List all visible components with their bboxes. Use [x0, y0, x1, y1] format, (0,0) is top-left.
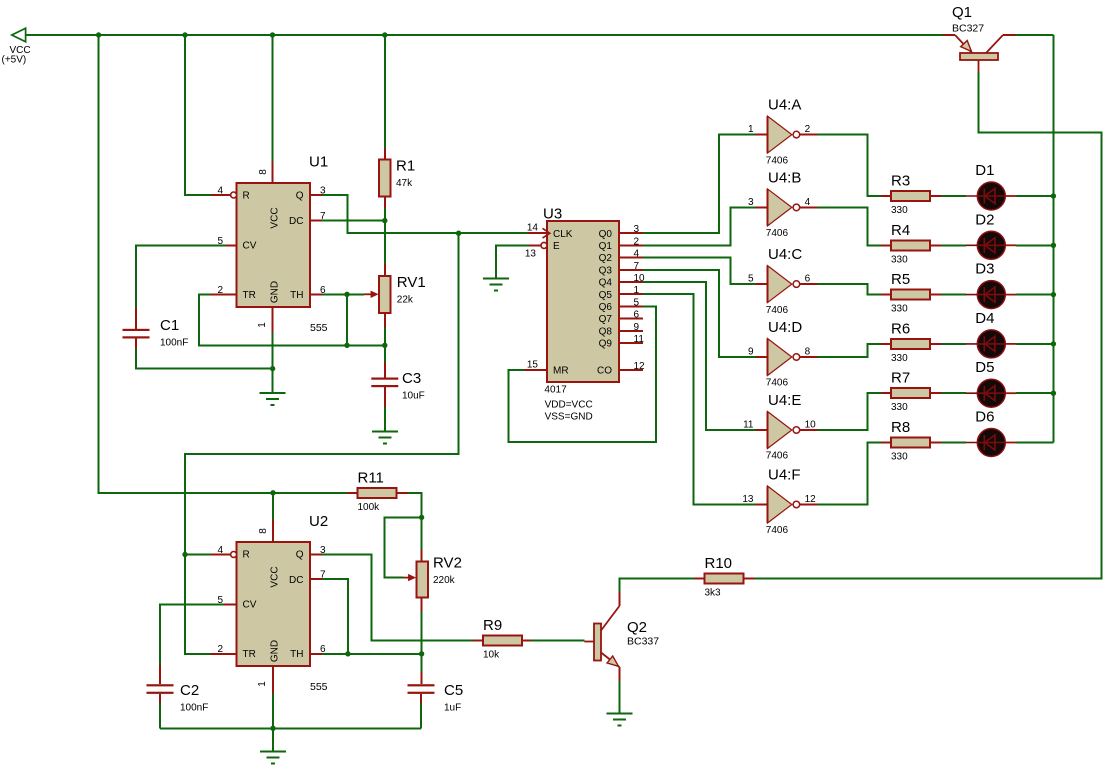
- wire D4 to anode rail: [1016, 343, 1053, 345]
- wire U4:A output to R3: [818, 135, 882, 196]
- pin stub U3 Q6: [619, 305, 643, 307]
- pin stub U3 CLK pin14: [527, 232, 547, 234]
- wiper arrow RV1: [364, 291, 379, 298]
- lead R3 right: [930, 195, 942, 197]
- svg-text:VSS=GND: VSS=GND: [545, 412, 593, 423]
- svg-text:7406: 7406: [766, 155, 789, 166]
- svg-text:R4: R4: [891, 222, 910, 239]
- pin stub U3 E pin13: [529, 244, 541, 246]
- LED D4: [966, 310, 1016, 358]
- junction anode rail y393: [1051, 391, 1056, 396]
- svg-text:3k3: 3k3: [705, 588, 722, 599]
- capacitor C1 100nF: [123, 317, 189, 349]
- lead Q2 emitter: [618, 667, 620, 681]
- capacitor C5 1uF: [408, 682, 464, 714]
- svg-text:CLK: CLK: [553, 229, 573, 240]
- svg-text:555: 555: [310, 322, 328, 334]
- resistor R3 330: [891, 173, 930, 217]
- svg-text:1uF: 1uF: [444, 703, 461, 714]
- inverter U4:B 7406: [756, 169, 818, 239]
- pin stub U2 R pin4: [211, 554, 231, 556]
- svg-text:11: 11: [743, 420, 754, 431]
- svg-text:Q: Q: [296, 550, 304, 561]
- svg-text:GND: GND: [270, 281, 281, 303]
- wire U4:E output to R7: [818, 393, 882, 430]
- pin number 3 U3 Q0: [634, 224, 640, 235]
- timer U2 555: [237, 513, 329, 693]
- pin stub U1 VCC pin8: [272, 162, 274, 184]
- wire U2 CV to C2: [160, 604, 224, 665]
- svg-text:100nF: 100nF: [160, 338, 188, 349]
- svg-text:DC: DC: [289, 575, 303, 586]
- wire U2 GND to bottom rail: [272, 694, 274, 729]
- pin number 2 U3 Q1: [634, 236, 640, 247]
- lead C5 top: [421, 672, 423, 684]
- pin number 14 U3: [527, 223, 539, 234]
- svg-text:8: 8: [258, 169, 269, 175]
- wire C5 to bottom rail: [420, 703, 422, 728]
- wire VCC top rail: [26, 34, 943, 36]
- svg-text:4: 4: [805, 197, 811, 208]
- pin stub U3 Q9: [619, 342, 643, 344]
- bubble U1 R pin4: [231, 192, 237, 198]
- svg-text:330: 330: [891, 452, 908, 463]
- lead Q2 collector: [618, 592, 620, 606]
- svg-text:22k: 22k: [397, 295, 414, 306]
- svg-text:9: 9: [748, 347, 754, 358]
- resistor R7 330: [891, 370, 930, 414]
- lead R1 bottom: [384, 196, 386, 208]
- inverter U4:C 7406: [756, 246, 818, 316]
- svg-text:Q5: Q5: [599, 290, 613, 301]
- pin stub U3 Q0: [619, 232, 643, 234]
- svg-text:(+5V): (+5V): [2, 55, 27, 66]
- pin number 13 U3: [525, 248, 537, 259]
- wire Q3 to U4:D: [643, 270, 755, 357]
- svg-text:U4:C: U4:C: [768, 246, 802, 263]
- svg-text:10uF: 10uF: [402, 391, 425, 402]
- pin stub U3 MR pin15: [524, 369, 547, 371]
- wire U1 Q to U3 CLK: [322, 195, 527, 233]
- wire U1 TH to RV1 wiper: [322, 293, 364, 295]
- svg-text:Q0: Q0: [599, 229, 613, 240]
- wire VCC drop to U1 reset: [185, 35, 211, 195]
- svg-text:C5: C5: [444, 682, 463, 699]
- wire Q0 to U4:A: [643, 135, 755, 234]
- pin stub U2 VCC pin8: [272, 520, 274, 543]
- svg-text:15: 15: [527, 359, 539, 370]
- svg-text:1: 1: [748, 124, 754, 135]
- pin stub U1 Q pin3: [310, 194, 322, 196]
- wire Q1 to U4:B: [643, 207, 755, 245]
- pin number 1 U2: [257, 681, 268, 687]
- svg-text:8: 8: [258, 528, 269, 534]
- pin stub U1 CV pin5: [226, 244, 237, 246]
- pin stub U2 Q pin3: [310, 554, 322, 556]
- lead R9 right: [522, 640, 531, 642]
- pin number 9 U3 Q8: [634, 322, 640, 333]
- junction Q net split to U2: [456, 231, 461, 236]
- pin stub U3 Q7: [619, 318, 643, 320]
- bubble U2 R pin4: [231, 552, 237, 558]
- ground U1: [260, 393, 286, 405]
- svg-text:220k: 220k: [433, 575, 456, 586]
- svg-text:330: 330: [891, 402, 908, 413]
- transistor Q1 BC327: [952, 4, 1003, 72]
- svg-text:R3: R3: [891, 173, 910, 190]
- junction VCC rail / U1 VCC drop: [270, 32, 275, 37]
- capacitor C3 10uF: [371, 370, 424, 402]
- power terminal VCC: [2, 28, 31, 65]
- svg-text:C1: C1: [160, 317, 179, 334]
- svg-text:RV2: RV2: [433, 555, 462, 572]
- svg-text:1: 1: [257, 681, 268, 687]
- svg-text:47k: 47k: [396, 178, 413, 189]
- svg-text:8: 8: [805, 347, 811, 358]
- wire R7 to D5: [942, 392, 966, 394]
- svg-text:U3: U3: [543, 206, 562, 223]
- svg-text:BC337: BC337: [627, 636, 659, 648]
- potentiometer RV2 220k: [417, 555, 462, 598]
- wire U1 DC to R1 bottom: [322, 220, 385, 222]
- pin numbers U4:D: [748, 347, 811, 358]
- svg-text:Q3: Q3: [599, 265, 613, 276]
- resistor R10 3k3: [705, 555, 744, 599]
- svg-text:R: R: [243, 191, 250, 202]
- lead C1 top: [135, 308, 137, 329]
- svg-text:Q6: Q6: [599, 302, 613, 313]
- svg-text:5: 5: [748, 274, 754, 285]
- wire R4 to D2: [942, 244, 966, 246]
- ground C3: [372, 431, 398, 443]
- pin numbers U4:E: [743, 420, 816, 431]
- junction R11 row / U2 VCC: [270, 490, 275, 495]
- svg-text:330: 330: [891, 304, 908, 315]
- ground U2: [260, 752, 286, 764]
- op-amp/timer U1 555: [237, 154, 329, 335]
- pin stub U2 CV pin5: [224, 603, 237, 605]
- wire C2 to bottom rail: [159, 703, 161, 728]
- svg-text:10: 10: [805, 420, 817, 431]
- pin number 10 U3 Q4: [634, 273, 646, 284]
- pin stub U3 Q2: [619, 257, 643, 259]
- wire U2 Q to R9: [322, 555, 472, 641]
- svg-text:R1: R1: [396, 157, 415, 174]
- lead C3 top: [384, 362, 386, 378]
- lead R10 left: [694, 578, 705, 580]
- wire U2 DC down to TH row: [322, 579, 348, 654]
- lead R9 left: [472, 640, 483, 642]
- pin numbers U4:A: [748, 124, 811, 135]
- pin stub U3 CO pin12: [619, 369, 643, 371]
- wire U1 TR to TH net: [199, 294, 385, 345]
- svg-text:R11: R11: [358, 469, 384, 486]
- svg-text:Q1: Q1: [952, 4, 972, 21]
- wiper arrow RV2: [404, 574, 417, 581]
- lead C3 bottom: [384, 387, 386, 407]
- resistor R1 47k: [379, 157, 415, 196]
- transistor Q2 BC337: [584, 606, 659, 667]
- svg-text:4017: 4017: [544, 385, 567, 396]
- pin stub U3 Q4: [619, 281, 643, 283]
- junction TH row / RV2-C5: [419, 651, 424, 656]
- lead RV2 top: [421, 550, 423, 562]
- wire U1 GND down: [272, 332, 274, 393]
- wire U1 CV to C1 top: [136, 245, 226, 307]
- svg-text:14: 14: [527, 223, 539, 234]
- pin stub U2 DC pin7: [310, 578, 322, 580]
- svg-text:BC327: BC327: [952, 23, 984, 35]
- svg-text:10k: 10k: [483, 650, 500, 661]
- wire Q2 emitter to ground: [618, 681, 620, 714]
- wire RV1 bottom to C3: [384, 328, 386, 363]
- svg-text:R6: R6: [891, 320, 910, 337]
- inverter U4:D 7406: [756, 319, 818, 389]
- svg-text:D6: D6: [975, 409, 994, 426]
- pin number 4 U2: [217, 545, 223, 556]
- pin number 1 U1: [257, 322, 268, 328]
- pin number 12 U3 CO: [634, 361, 646, 372]
- svg-text:13: 13: [742, 494, 754, 505]
- pin stub U3 Q3: [619, 269, 643, 271]
- wire Q net down to U2 reset/trigger: [185, 233, 459, 654]
- svg-text:Q9: Q9: [599, 339, 613, 350]
- svg-text:330: 330: [891, 205, 908, 216]
- svg-text:E: E: [553, 241, 560, 252]
- lead C2 bottom: [159, 694, 161, 703]
- svg-text:U2: U2: [309, 513, 328, 530]
- junction anode rail y196: [1051, 193, 1056, 198]
- svg-text:7406: 7406: [766, 451, 789, 462]
- inverter U4:A 7406: [756, 97, 818, 167]
- svg-text:D5: D5: [975, 359, 994, 376]
- svg-text:CV: CV: [243, 241, 257, 252]
- lead R8 right: [930, 442, 942, 444]
- lead R7 left: [881, 392, 891, 394]
- svg-text:VCC: VCC: [270, 207, 281, 228]
- lead R11 left: [348, 492, 358, 494]
- lead R10 right: [744, 578, 755, 580]
- svg-text:RV1: RV1: [397, 274, 426, 291]
- svg-text:7406: 7406: [766, 525, 789, 536]
- lead C1 bottom: [135, 339, 137, 349]
- svg-text:Q: Q: [296, 191, 304, 202]
- wire Q5 to U4:F: [643, 294, 755, 504]
- resistor R5 330: [891, 271, 930, 315]
- lead R3 left: [881, 195, 891, 197]
- inverter U4:E 7406: [756, 392, 818, 462]
- wire D3 to anode rail: [1016, 294, 1053, 296]
- pin numbers U4:B: [748, 197, 811, 208]
- pin number 7 U2: [320, 570, 326, 581]
- lead R8 left: [881, 442, 891, 444]
- wire D5 to anode rail: [1016, 392, 1053, 394]
- pin number 3 U1: [320, 186, 326, 197]
- svg-text:12: 12: [805, 494, 817, 505]
- svg-text:3: 3: [748, 197, 754, 208]
- junction anode rail y245: [1051, 243, 1056, 248]
- pin stub U1 GND pin1: [272, 307, 274, 332]
- pin number 7 U3 Q3: [634, 261, 640, 272]
- junction bottom rail / U2 GND: [270, 726, 275, 731]
- wire U4:C output to R5: [818, 284, 882, 295]
- svg-text:R8: R8: [891, 419, 910, 436]
- wire TH junction down: [346, 294, 348, 345]
- svg-text:TR: TR: [243, 290, 256, 301]
- pin number 4 U3 Q2: [634, 249, 640, 260]
- junction TR line / RV1-C3: [382, 343, 387, 348]
- svg-text:D3: D3: [975, 261, 994, 278]
- LED D1: [966, 162, 1016, 210]
- svg-text:U1: U1: [309, 154, 328, 171]
- pin number 5 U3 Q6: [634, 297, 640, 308]
- junction DC/TH row: [345, 651, 350, 656]
- svg-text:2: 2: [805, 124, 811, 135]
- wire R11 to RV2 top: [408, 493, 422, 550]
- resistor R9 10k: [483, 617, 522, 661]
- lead RV2 bottom: [421, 598, 423, 613]
- pin stub U3 Q8: [619, 330, 643, 332]
- wire U2 reset tap: [185, 554, 211, 556]
- svg-text:6: 6: [805, 274, 811, 285]
- wire Q1 collector to anode rail: [1016, 34, 1054, 36]
- pin stub Q1 emitter: [942, 34, 955, 36]
- junction VCC rail / R1 drop: [382, 32, 387, 37]
- svg-text:Q2: Q2: [599, 253, 613, 264]
- wire R8 to D6: [942, 442, 966, 444]
- resistor R11 100k: [358, 469, 397, 513]
- pin stub U2 GND pin1: [272, 666, 274, 694]
- wire C1 bottom to ground node: [136, 349, 273, 369]
- wire D6 to anode rail: [1016, 442, 1053, 444]
- pin number 6 U1: [320, 285, 326, 296]
- wire U3 MR to Q6 loop: [508, 306, 656, 442]
- wire R9 to Q2 base: [531, 640, 584, 642]
- svg-text:D1: D1: [975, 162, 994, 179]
- wire Q4 to U4:E: [643, 282, 755, 430]
- svg-text:C2: C2: [180, 682, 199, 699]
- lead RV1 bottom: [384, 313, 386, 328]
- junction VCC rail / x99 drop: [96, 32, 101, 37]
- lead R1 top: [384, 149, 386, 160]
- pin stub U2 TH pin6: [310, 653, 322, 655]
- wire U4:B output to R4: [818, 207, 882, 245]
- pin number 6 U2: [320, 644, 326, 655]
- svg-text:Q8: Q8: [599, 326, 613, 337]
- pin stub Q1 collector: [1003, 34, 1016, 36]
- lead R7 right: [930, 392, 942, 394]
- wire Q2 to U4:C: [643, 258, 755, 285]
- junction R1/DC/RV1: [382, 218, 387, 223]
- pin number 5 U1: [217, 236, 223, 247]
- svg-text:U4:D: U4:D: [768, 319, 802, 336]
- junction anode rail y343: [1051, 341, 1056, 346]
- pin number 7 U1: [320, 211, 326, 222]
- svg-text:U4:A: U4:A: [768, 97, 801, 114]
- svg-text:R7: R7: [891, 370, 910, 387]
- wire U3 E to ground: [496, 245, 529, 278]
- pin number 5 U2: [217, 595, 223, 606]
- svg-text:100k: 100k: [358, 502, 381, 513]
- pin number 3 U2: [320, 545, 326, 556]
- svg-text:Q2: Q2: [627, 619, 647, 636]
- svg-text:R5: R5: [891, 271, 910, 288]
- inverter U4:F 7406: [756, 467, 818, 537]
- ground Q2 emitter: [606, 714, 632, 726]
- pin number 8 U2: [258, 528, 269, 534]
- svg-text:R: R: [243, 550, 250, 561]
- svg-text:D4: D4: [975, 310, 994, 327]
- potentiometer RV1 22k: [379, 274, 426, 313]
- svg-text:DC: DC: [289, 216, 303, 227]
- lead R5 left: [881, 294, 891, 296]
- svg-text:U4:F: U4:F: [768, 467, 801, 484]
- wire Q1 base to R10: [755, 72, 1102, 579]
- svg-text:Q7: Q7: [599, 314, 613, 325]
- lead RV1 top: [384, 264, 386, 277]
- LED D5: [966, 359, 1016, 407]
- wire D2 to anode rail: [1016, 244, 1053, 246]
- svg-text:R9: R9: [483, 617, 502, 634]
- pin stub U3 Q5: [619, 293, 643, 295]
- pin stub U1 TR pin2: [210, 293, 237, 295]
- junction TR line / TH drop: [344, 343, 349, 348]
- svg-text:330: 330: [891, 254, 908, 265]
- svg-text:D2: D2: [975, 211, 994, 228]
- wire R11 row to U2 pin8: [272, 493, 274, 520]
- pin number 11 U3 Q9: [634, 334, 645, 345]
- pin number 2 U1: [217, 285, 223, 296]
- wire VCC rail to R11 row: [99, 35, 348, 493]
- wire VCC drop to R1: [384, 35, 386, 149]
- pin stub U2 TR pin2: [210, 653, 237, 655]
- svg-text:Q4: Q4: [599, 278, 613, 289]
- wire bottom rail to ground: [272, 728, 274, 751]
- pin numbers U4:F: [742, 494, 816, 505]
- wire U2 TH row: [322, 653, 422, 655]
- wire LED anode rail: [1052, 35, 1054, 443]
- wire RV2 wiper loop: [385, 517, 422, 577]
- pin number 6 U3 Q7: [634, 310, 640, 321]
- svg-text:C3: C3: [402, 370, 421, 387]
- svg-text:TH: TH: [290, 290, 303, 301]
- LED D3: [966, 261, 1016, 309]
- counter U3 4017: [543, 206, 620, 423]
- svg-text:13: 13: [525, 248, 537, 259]
- junction U2 reset tap: [182, 552, 187, 557]
- lead R4 right: [930, 244, 942, 246]
- lead C2 top: [159, 665, 161, 684]
- resistor R4 330: [891, 222, 930, 265]
- lead R6 right: [930, 343, 942, 345]
- pin stub U1 TH pin6: [310, 293, 322, 295]
- junction RV2 top / wiper: [419, 515, 424, 520]
- LED D6: [966, 409, 1016, 457]
- svg-text:CO: CO: [597, 365, 612, 376]
- wire RV2 bottom to TH row and C5: [421, 612, 423, 672]
- pin number 2 U2: [217, 644, 223, 655]
- wire VCC drop to U1 pin8: [272, 35, 274, 162]
- LED D2: [966, 211, 1016, 259]
- pin stub U3 Q1: [619, 244, 643, 246]
- resistor R8 330: [891, 419, 930, 463]
- svg-text:1: 1: [257, 322, 268, 328]
- ground U3 enable: [483, 279, 509, 291]
- pin numbers U4:C: [748, 274, 811, 285]
- svg-text:TR: TR: [243, 649, 256, 660]
- svg-text:VDD=VCC: VDD=VCC: [545, 399, 593, 410]
- pin number 8 U1: [258, 169, 269, 175]
